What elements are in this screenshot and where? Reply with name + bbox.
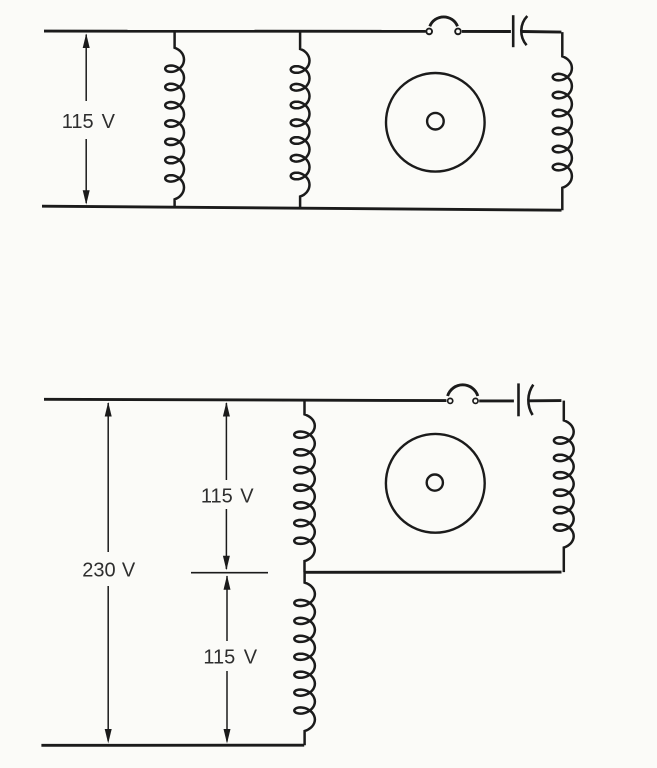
centrifugal switch S2 right contact circle xyxy=(473,398,478,403)
wire bottom horizontal (L2 line, top circuit) xyxy=(42,206,562,210)
dimension arrow shaft lower segment (115 V upper, bottom circuit) xyxy=(225,509,227,569)
inductor start winding (bottom circuit, right coil) xyxy=(554,401,574,572)
motor shaft inner circle (bottom circuit) xyxy=(427,475,443,491)
dimension arrowhead down (115 V upper, bottom circuit) xyxy=(223,556,230,571)
svg-text:115: 115 xyxy=(203,646,235,668)
wire between switch and capacitor (bottom circuit) xyxy=(479,399,514,402)
inductor auxiliary winding (top circuit, middle coil) xyxy=(291,32,310,208)
dimension arrowhead up (115 V lower, bottom circuit) xyxy=(224,575,231,590)
inductor run winding upper half (bottom circuit) xyxy=(294,400,315,573)
svg-text:V: V xyxy=(102,111,116,133)
dimension arrowhead up (115 V, top circuit) xyxy=(83,34,90,49)
inductor main run winding (top circuit, left coil) xyxy=(165,32,184,207)
wire capacitor to top-right corner (bottom circuit) xyxy=(530,399,562,402)
dimension arrow shaft lower segment (115 V lower, bottom circuit) xyxy=(226,671,228,742)
capacitor C1 curved plate xyxy=(521,16,527,45)
wire capacitor to top-right corner (top circuit) xyxy=(522,30,561,33)
dimension arrowhead down (230 V) xyxy=(105,729,112,744)
centrifugal switch S1 left contact circle xyxy=(426,29,432,35)
dimension arrowhead down (115 V, top circuit) xyxy=(83,190,90,205)
dimension arrow shaft lower segment (115 V, top circuit) xyxy=(85,139,87,203)
svg-text:V: V xyxy=(244,646,258,668)
dimension arrowhead up (230 V) xyxy=(105,402,112,417)
dimension arrow shaft upper segment (115 V lower, bottom circuit) xyxy=(226,576,228,641)
dimension tick at series midpoint xyxy=(191,572,268,574)
dimension arrow shaft lower segment (230 V) xyxy=(107,586,109,741)
inductor start winding (top circuit, right coil) xyxy=(553,32,572,210)
wire bottom horizontal (L2 line, bottom circuit) xyxy=(41,744,304,747)
capacitor C2 straight plate xyxy=(517,383,520,416)
motor shaft inner circle (top circuit) xyxy=(427,113,444,130)
centrifugal switch S2 left contact circle xyxy=(448,398,453,403)
motor rotor outer circle (top circuit) xyxy=(386,73,485,172)
motor rotor outer circle (bottom circuit) xyxy=(386,434,485,533)
dimension arrow shaft upper segment (230 V) xyxy=(107,403,109,552)
wire between switch and capacitor (top circuit) xyxy=(462,30,511,33)
capacitor C2 curved plate xyxy=(528,385,533,415)
centrifugal switch S1 right contact circle xyxy=(455,29,461,35)
svg-text:V: V xyxy=(240,486,254,508)
dimension arrowhead down (115 V lower, bottom circuit) xyxy=(224,729,231,744)
dimension arrow shaft upper segment (115 V, top circuit) xyxy=(85,35,87,102)
wire top horizontal (L1 line, bottom circuit) xyxy=(44,399,446,400)
svg-text:115: 115 xyxy=(201,486,233,508)
centrifugal switch S2 actuator arc xyxy=(448,385,478,396)
capacitor C1 straight plate xyxy=(512,15,515,47)
dimension arrow shaft upper segment (115 V upper, bottom circuit) xyxy=(225,403,227,480)
wire middle horizontal (motor return, bottom circuit) xyxy=(304,571,562,574)
inductor run winding lower half (bottom circuit) xyxy=(294,572,315,745)
svg-text:V: V xyxy=(122,560,136,582)
wire top-left horizontal (L1 line, top circuit) xyxy=(44,30,426,33)
centrifugal switch S1 actuator arc xyxy=(430,17,458,26)
dimension arrowhead up (115 V upper, bottom circuit) xyxy=(223,402,230,417)
svg-text:115: 115 xyxy=(62,111,94,133)
svg-text:230: 230 xyxy=(82,560,115,582)
